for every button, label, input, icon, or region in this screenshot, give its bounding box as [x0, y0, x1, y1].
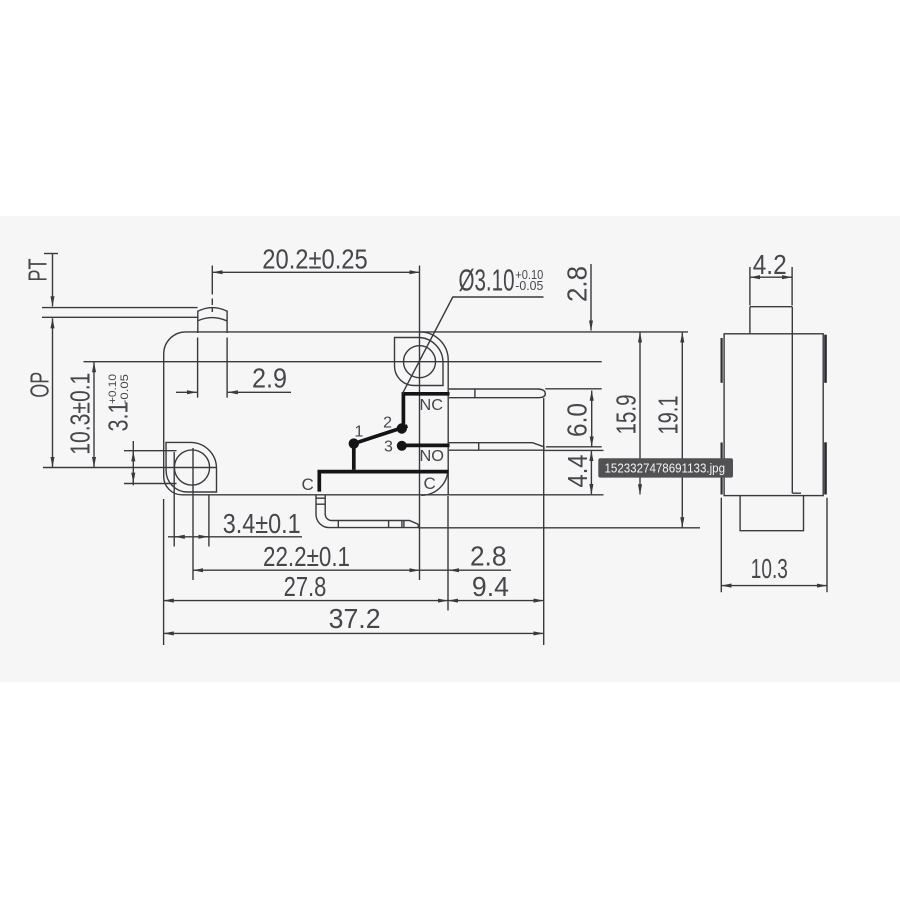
top-right mounting hole circle: [404, 346, 436, 378]
svg-text:9.4: 9.4: [472, 571, 509, 602]
NC terminal pin: [449, 389, 545, 398]
svg-text:27.8: 27.8: [284, 571, 327, 602]
svg-text:2.8: 2.8: [562, 266, 593, 302]
lever arm bottom line: [42, 316, 198, 318]
svg-text:1523327478691133.jpg: 1523327478691133.jpg: [605, 462, 726, 476]
hole horizontal center line: [84, 361, 602, 363]
plunger dome free position: [198, 308, 227, 312]
dim PT top tick: [44, 253, 58, 255]
side view bottom tab: [740, 496, 803, 531]
svg-text:2.8: 2.8: [470, 541, 507, 572]
dim 3.1 ext bottom: [124, 483, 177, 485]
dim 6.0 line: [591, 391, 593, 447]
circuit wire from node 1 down: [352, 444, 356, 470]
side view parting line: [792, 307, 801, 494]
svg-text:NO: NO: [420, 448, 445, 465]
dim 15.9 line: [639, 332, 641, 494]
svg-text:2: 2: [383, 415, 392, 432]
side view left rib top: [720, 338, 722, 383]
svg-text:6.0: 6.0: [562, 403, 593, 437]
dim 2.9 ext lines: [198, 338, 228, 398]
side view plunger: [750, 307, 792, 334]
svg-text:C: C: [302, 475, 314, 494]
svg-text:-0.05: -0.05: [119, 374, 131, 404]
lever arm top line: [42, 307, 198, 309]
dim 20.2 line: [213, 271, 420, 273]
node 3 dot: [397, 441, 407, 451]
dim 4.2 line: [750, 276, 792, 278]
dim 2.9 left arrow: [176, 391, 197, 393]
body top-right corner: [420, 332, 448, 360]
dim 10.3 left line: [93, 362, 95, 467]
dim 2.8 bottom arrow: [420, 569, 450, 571]
NO pin crimp lines: [478, 443, 480, 451]
svg-text:PT: PT: [23, 258, 53, 281]
svg-text:4.4: 4.4: [562, 455, 593, 488]
svg-text:37.2: 37.2: [329, 603, 381, 634]
dim 37.2 line: [164, 632, 544, 634]
body top-left corner: [164, 332, 186, 354]
dim 3.1 arrow up: [132, 451, 134, 459]
svg-text:OP: OP: [25, 372, 55, 398]
svg-text:+0.10: +0.10: [107, 374, 119, 404]
plunger right side: [226, 311, 228, 334]
svg-text:NC: NC: [420, 397, 444, 414]
svg-text:C: C: [424, 474, 436, 493]
body left edge: [163, 354, 165, 477]
svg-text:4.2: 4.2: [753, 249, 787, 280]
svg-text:10.3: 10.3: [751, 553, 788, 584]
dim 10.3 right ext lines: [721, 498, 827, 593]
dim 4.4 ext top: [545, 449, 604, 451]
ext line body right: [447, 496, 449, 611]
NO terminal pin: [449, 443, 544, 451]
dim 22.2 line: [193, 569, 420, 571]
dim 9.4 line: [448, 600, 544, 602]
gray image band: [0, 216, 900, 682]
dim 3.4 ext lines: [174, 452, 209, 547]
side view right rib bottom: [824, 442, 827, 494]
C bent pin inner contour: [325, 495, 418, 525]
svg-text:2.9: 2.9: [252, 363, 287, 394]
svg-text:1: 1: [355, 424, 364, 441]
C pin crimp lines: [338, 521, 404, 528]
dim 3.4 line: [168, 536, 302, 538]
bottom-left mounting hole circle: [174, 450, 209, 485]
dim 3.1 arrow down: [132, 475, 134, 483]
body bottom-left corner: [164, 477, 182, 495]
svg-text:15.9: 15.9: [611, 395, 642, 435]
ext line body left: [163, 499, 165, 645]
svg-text:3: 3: [384, 439, 393, 456]
svg-text:-0.05: -0.05: [515, 279, 543, 293]
plunger left side: [197, 311, 199, 334]
svg-text:10.3±0.1: 10.3±0.1: [65, 373, 96, 455]
dim 4.2 ext lines: [750, 267, 792, 306]
top-right mounting boss: [395, 338, 444, 386]
filename tooltip box: [598, 458, 733, 477]
dim 10.3 right line: [721, 585, 827, 587]
plunger center line dash-dot: [211, 266, 213, 313]
movable contact blade: [354, 426, 408, 444]
svg-text:3.4±0.1: 3.4±0.1: [223, 508, 301, 539]
C pin bottom extension line: [418, 527, 700, 529]
dim 27.8 line: [164, 600, 448, 602]
body right edge: [447, 360, 449, 495]
dim 3.1 ext top: [124, 450, 177, 452]
circuit wire C bar: [319, 472, 448, 492]
dim OP line: [52, 318, 54, 467]
bottom hole vertical center line: [192, 448, 194, 580]
node 1 dot: [349, 438, 359, 448]
dim 6.0 ext bottom: [546, 446, 602, 448]
C bent pin root ticks: [316, 498, 326, 504]
body top edge with right extension: [186, 331, 688, 333]
dim 2.8 top arrow: [590, 264, 592, 331]
plunger dome pressed position: [198, 318, 227, 321]
side view left rib bottom: [720, 443, 722, 495]
C bent pin outer contour: [316, 495, 418, 528]
C terminal exit arc: [421, 470, 448, 495]
dim 2.9 right arrow: [228, 391, 291, 393]
dim PT line: [52, 254, 54, 307]
dim 6.0 ext top: [545, 388, 601, 390]
svg-text:20.2±0.25: 20.2±0.25: [262, 243, 367, 274]
bottom-left mounting boss: [166, 442, 217, 492]
svg-text:22.2±0.1: 22.2±0.1: [263, 541, 350, 572]
svg-text:Ø3.10: Ø3.10: [459, 263, 515, 298]
circuit wire NO bar: [402, 444, 450, 448]
dim 19.1 line: [681, 332, 683, 527]
NC pin crimp lines: [474, 389, 476, 398]
node 2 dot: [397, 423, 407, 433]
body bottom edge with right extension: [182, 494, 604, 496]
bottom hole horizontal center line: [43, 467, 217, 469]
dim 3.1 line: [132, 441, 134, 485]
circuit wire NC bar: [403, 394, 449, 429]
ext line pin tip: [543, 398, 545, 645]
svg-text:19.1: 19.1: [653, 396, 684, 435]
dim 4.4 line: [590, 451, 592, 494]
dia 3.10 leader: [403, 297, 544, 393]
side view right rib top: [824, 335, 827, 383]
hole vertical center line: [419, 266, 421, 581]
side view body: [724, 334, 823, 496]
svg-text:3.1: 3.1: [103, 402, 134, 432]
